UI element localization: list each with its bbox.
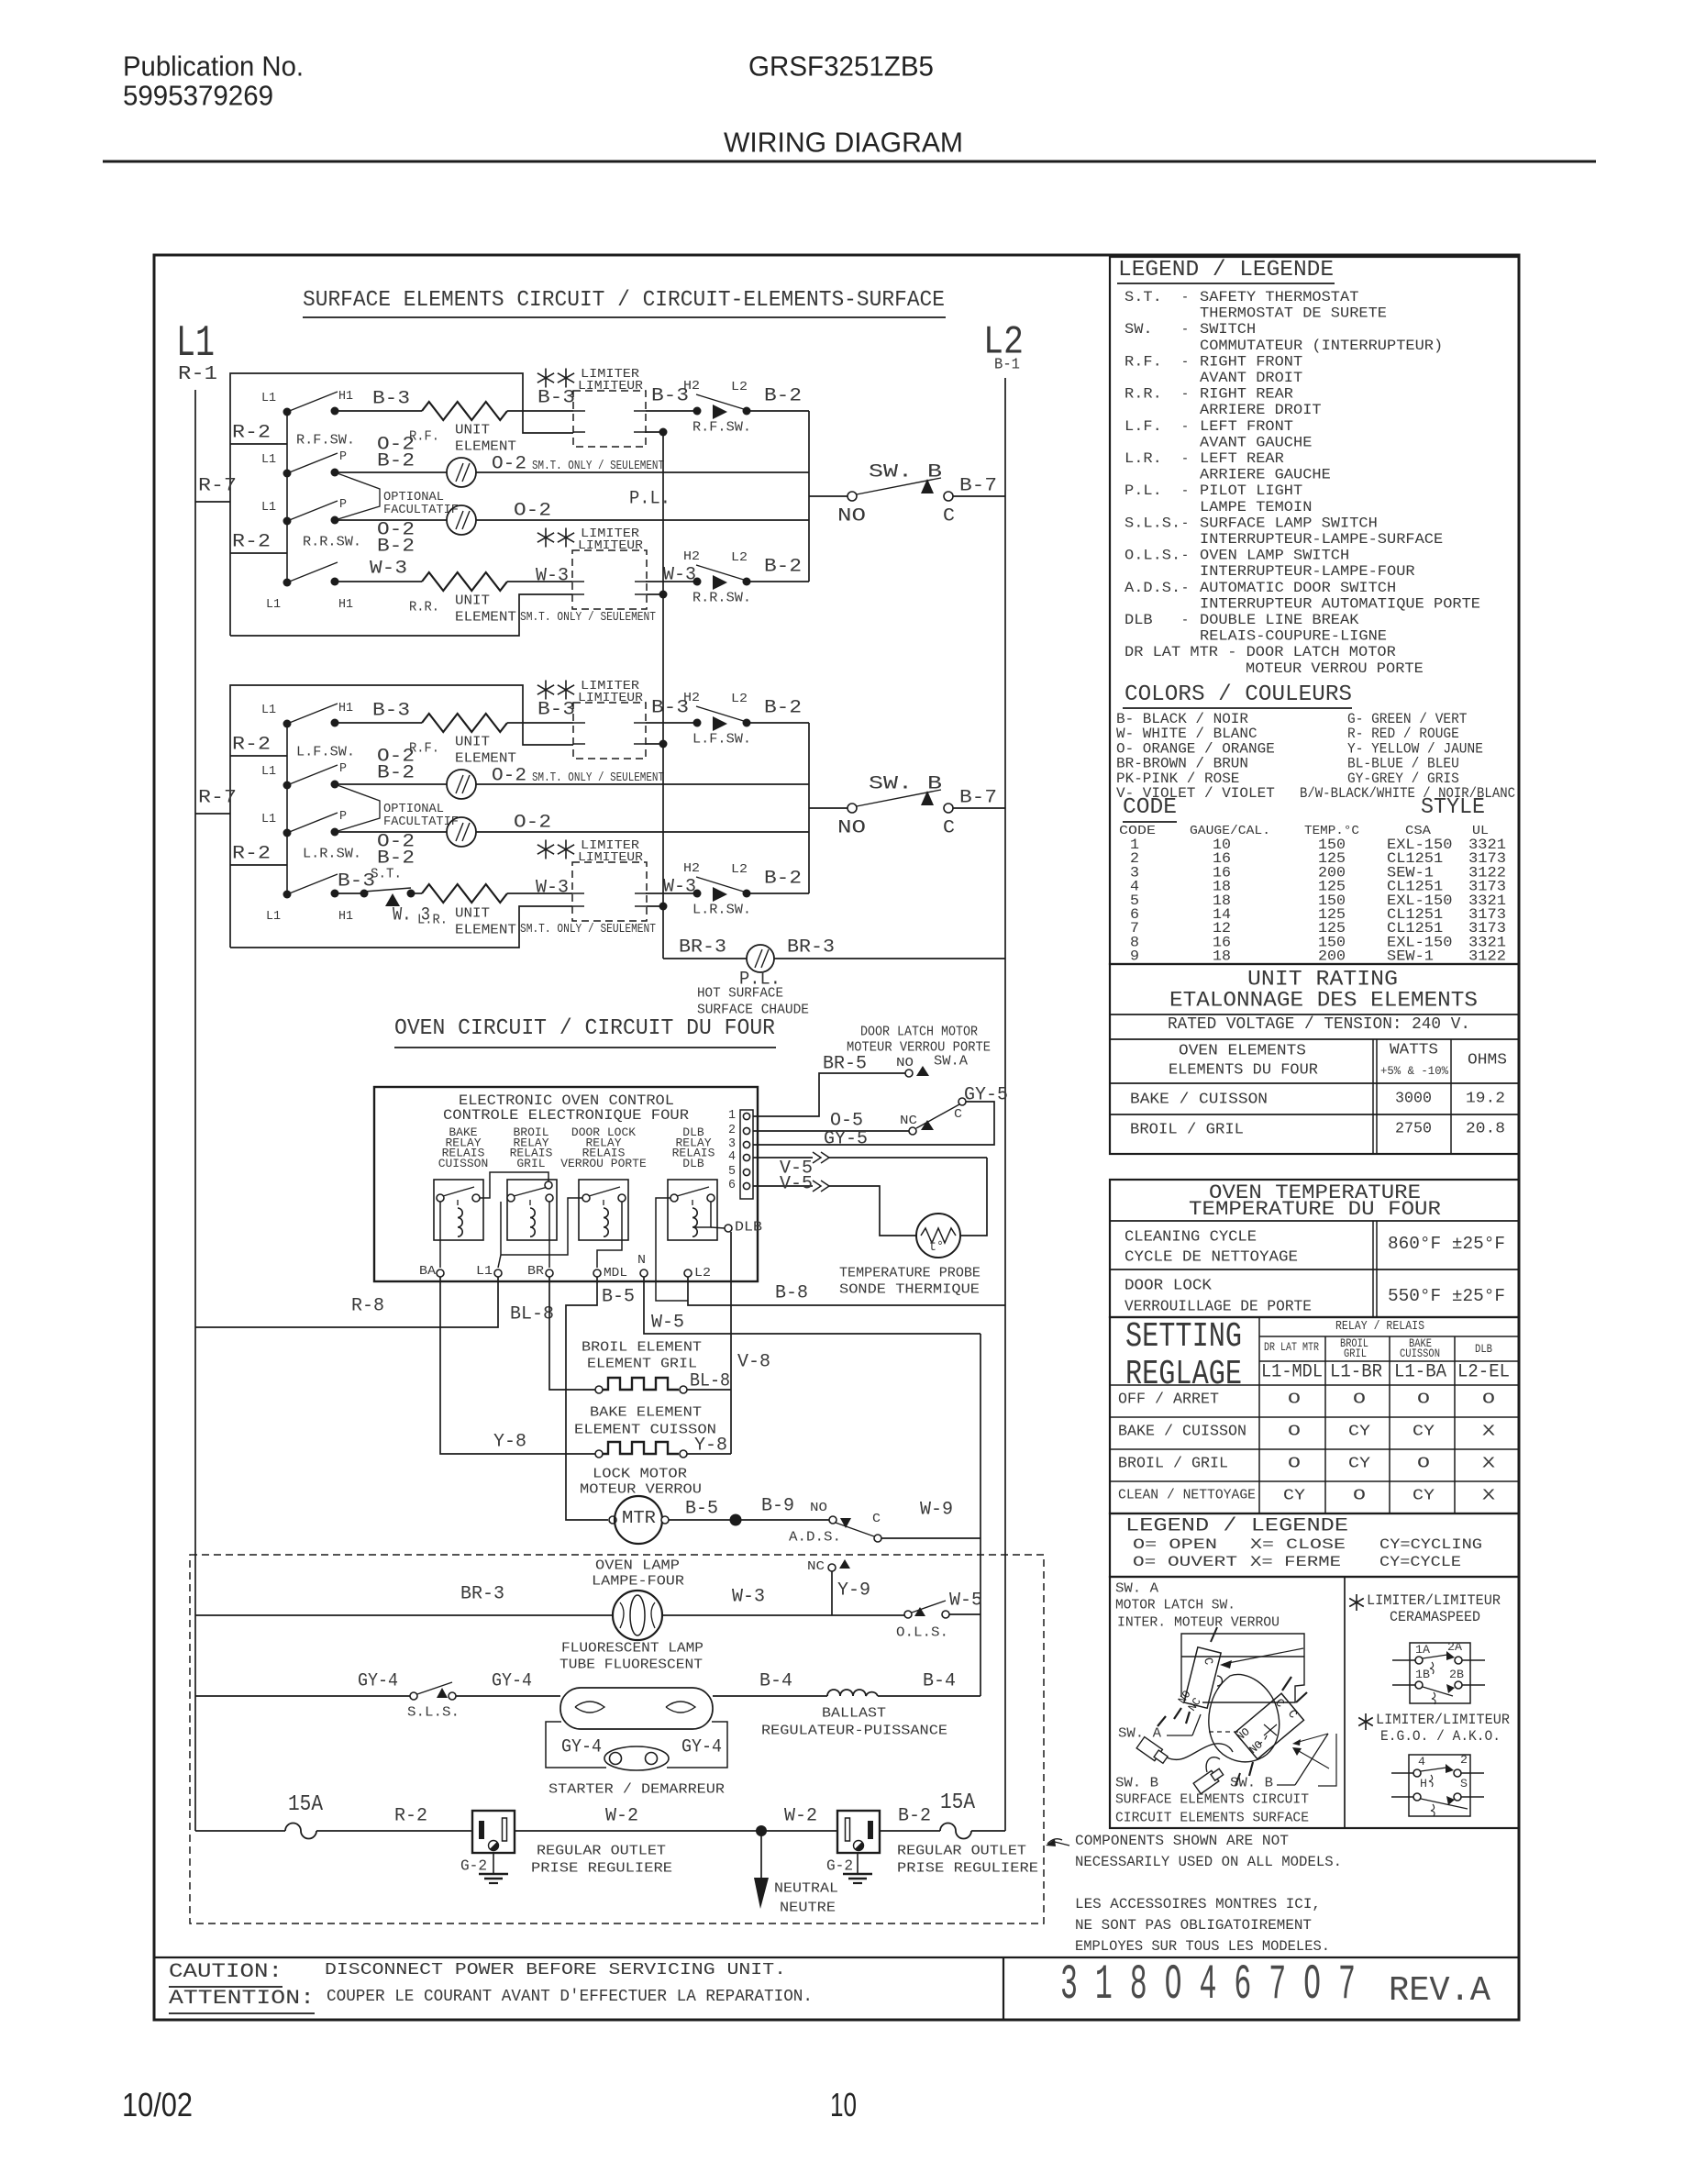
wire collector vertical group2 <box>808 723 810 893</box>
svg-text:L2-EL: L2-EL <box>1457 1362 1510 1383</box>
svg-text:W-3: W-3 <box>663 877 696 898</box>
svg-text:-: - <box>1181 386 1189 403</box>
relay K3 blade <box>589 1187 620 1196</box>
svg-text:CY=CYCLING: CY=CYCLING <box>1379 1536 1482 1553</box>
svg-text:SWITCH: SWITCH <box>1200 321 1256 338</box>
wire N pin to W rail (W-5) <box>644 1277 980 1334</box>
switch actuator triangle <box>713 716 727 731</box>
svg-text:CLEAN / NETTOYAGE: CLEAN / NETTOYAGE <box>1118 1487 1256 1502</box>
wire H1 to element <box>335 722 422 724</box>
wires 4 2 <box>1391 1772 1413 1774</box>
limiter dashed box (R.F.) <box>573 391 646 447</box>
svg-text:CYCLE DE NETTOYAGE: CYCLE DE NETTOYAGE <box>1125 1249 1298 1267</box>
wire bake right terminal stub <box>687 1453 731 1455</box>
asterisk limiter ceramaspeed <box>1356 1594 1357 1611</box>
wire SW.B to L2 rail (B-7) <box>953 495 1005 497</box>
wire H1 to element (R.R.) <box>335 581 422 582</box>
fuse F1 15A <box>285 1824 316 1839</box>
switch R.F.SW. H2 contact <box>693 407 702 416</box>
switch blade <box>287 453 338 473</box>
svg-text:COMMUTATEUR (INTERRUPTEUR): COMMUTATEUR (INTERRUPTEUR) <box>1200 338 1443 354</box>
wire return to limiter lower <box>230 594 572 636</box>
limiter dashed box (L.F.) <box>573 703 646 759</box>
switch R.F.SW. L2 contact <box>743 407 751 416</box>
pilot light P.L. (L.R.SW.) <box>447 817 476 847</box>
svg-text:Publication No.: Publication No. <box>123 50 304 82</box>
svg-text:B-5: B-5 <box>685 1499 718 1520</box>
rule <box>1110 1384 1519 1386</box>
svg-text:B-2: B-2 <box>377 763 415 784</box>
svg-text:R.F.SW.: R.F.SW. <box>296 432 355 448</box>
wire relay K2 right contact to BR pin <box>548 1202 550 1268</box>
wire from spade 1 <box>1167 1744 1233 1760</box>
switch B body (rotated) <box>1235 1693 1304 1759</box>
pointer arrows to switch B <box>1299 1734 1328 1742</box>
svg-text:SW. A: SW. A <box>1118 1725 1161 1741</box>
svg-text:GY-5: GY-5 <box>964 1085 1008 1106</box>
svg-text:CERAMASPEED: CERAMASPEED <box>1390 1609 1480 1625</box>
terminal S <box>1454 1793 1461 1801</box>
bake element right terminal <box>680 1450 687 1458</box>
wire ballast to W rail (B-4) <box>878 1695 980 1697</box>
svg-text:L1: L1 <box>176 319 215 369</box>
svg-text:H2: H2 <box>683 691 700 705</box>
svg-text:L2: L2 <box>694 1266 711 1280</box>
svg-text:L.F.SW.: L.F.SW. <box>296 744 355 759</box>
table vertical dividers <box>1258 1317 1260 1513</box>
svg-text:-: - <box>1181 289 1189 305</box>
wire limiter1 lower terminal to P.L. node <box>646 431 663 433</box>
svg-text:LEFT REAR: LEFT REAR <box>1200 450 1284 467</box>
wire P.L. vertical <box>662 432 664 959</box>
svg-text:NC: NC <box>807 1559 825 1574</box>
spade terminal 2 <box>1193 1767 1224 1794</box>
switch blade <box>696 877 747 892</box>
svg-text:DR LAT MTR: DR LAT MTR <box>1264 1340 1319 1354</box>
svg-text:O.L.S.: O.L.S. <box>1125 548 1180 564</box>
terminal 2B <box>1455 1681 1462 1689</box>
tube filament left <box>575 1702 604 1713</box>
wire limiter to L.R.SW. H2 <box>646 892 693 894</box>
limiter dashed box (R.R.) <box>572 550 647 609</box>
O.L.S. actuator triangle <box>914 1607 925 1616</box>
SW.A NC actuator triangle <box>921 1120 934 1130</box>
svg-text:P.L.: P.L. <box>1125 482 1162 499</box>
switch L.F.SW. pole 2 (pilot) - L1 contact <box>283 782 292 790</box>
wire A.D.S. C to W rail (W-9) <box>881 1537 980 1539</box>
svg-text:C: C <box>872 1512 881 1526</box>
svg-text:L1: L1 <box>261 391 276 405</box>
svg-text:GRSF3251ZB5: GRSF3251ZB5 <box>748 50 934 82</box>
svg-text:ARRIERE GAUCHE: ARRIERE GAUCHE <box>1200 467 1331 483</box>
svg-text:S.L.S.: S.L.S. <box>407 1704 460 1720</box>
wire junction to outlet 2 (W-2) <box>761 1830 837 1832</box>
resistor R.R. unit element <box>422 572 507 591</box>
caution divider <box>1003 1957 1004 2020</box>
svg-text:GRIL: GRIL <box>1344 1347 1367 1360</box>
svg-text:18: 18 <box>1213 948 1231 965</box>
svg-text:2750: 2750 <box>1395 1121 1432 1138</box>
wire pilot to L2 rail <box>774 958 1005 959</box>
svg-text:O: O <box>1288 1424 1301 1441</box>
svg-text:+5% & -10%: +5% & -10% <box>1380 1064 1448 1078</box>
svg-text:VERROU PORTE: VERROU PORTE <box>560 1157 647 1170</box>
switch S.L.S. right terminal <box>449 1692 456 1700</box>
svg-text:BAKE / CUISSON: BAKE / CUISSON <box>1118 1424 1246 1441</box>
wire collector vertical group1 <box>808 411 810 582</box>
svg-text:DLB: DLB <box>1125 612 1153 628</box>
switch SW.B C contact <box>944 804 953 813</box>
svg-text:LAMPE-FOUR: LAMPE-FOUR <box>592 1573 684 1589</box>
wire relay K3 right contact to MDL pin <box>597 1202 622 1268</box>
bake element left terminal <box>595 1450 603 1458</box>
switch L.F.SW. H1 contact <box>331 719 339 727</box>
svg-text:WIRING DIAGRAM: WIRING DIAGRAM <box>724 126 963 158</box>
switch blade <box>696 706 747 722</box>
connector >> upper <box>813 1152 821 1163</box>
switch L.R.SW. pole 2 (pilot) - L1 contact <box>283 829 292 837</box>
resistor L.R. unit element <box>422 884 507 903</box>
svg-text:NC: NC <box>900 1114 917 1128</box>
svg-text:MDL: MDL <box>604 1266 627 1280</box>
neutral arrow <box>754 1878 769 1909</box>
svg-text:TEMPERATURE PROBE: TEMPERATURE PROBE <box>839 1265 980 1280</box>
wire R-2 stub upper <box>230 443 287 445</box>
svg-text:SW. B: SW. B <box>1230 1775 1273 1790</box>
triangle <box>1446 1764 1454 1773</box>
wire L1 rail to oven lamp (BR-3) <box>195 1614 613 1616</box>
svg-text:COUPER LE COURANT AVANT D'EFFE: COUPER LE COURANT AVANT D'EFFECTUER LA R… <box>327 1988 813 2006</box>
svg-text:LEFT FRONT: LEFT FRONT <box>1200 418 1293 435</box>
svg-text:P: P <box>339 449 347 464</box>
relay K2 blade <box>514 1187 548 1196</box>
wire O.L.S. to W rail <box>949 1613 980 1615</box>
svg-text:LEGEND / LEGENDE: LEGEND / LEGENDE <box>1118 258 1334 283</box>
svg-text:GY-5: GY-5 <box>824 1129 868 1150</box>
svg-text:WATTS: WATTS <box>1390 1042 1438 1059</box>
outlet 2 (regular outlet) <box>837 1811 880 1853</box>
svg-text:L1: L1 <box>266 909 281 924</box>
svg-text:GY-4: GY-4 <box>492 1671 532 1692</box>
switch A body (rotated) <box>1184 1647 1221 1708</box>
svg-text:R.R.SW.: R.R.SW. <box>303 534 361 549</box>
svg-text:VERROUILLAGE DE PORTE: VERROUILLAGE DE PORTE <box>1125 1299 1312 1316</box>
wire S.T. to element <box>411 892 422 894</box>
svg-text:6: 6 <box>728 1178 736 1192</box>
junction dot <box>659 591 668 599</box>
switch P contact <box>331 828 339 837</box>
junction dot neutral <box>756 1825 767 1836</box>
wire outlet2 to fuse F2 (B-2) <box>880 1830 940 1832</box>
electronic oven control box U1 <box>374 1087 758 1281</box>
wire L1 pin to relay K2 left contact <box>498 1202 501 1268</box>
svg-text:DOOR LATCH MOTOR: DOOR LATCH MOTOR <box>860 1024 978 1039</box>
wire L1 node to relay K3 left contact <box>501 1198 582 1255</box>
svg-text:NO: NO <box>837 506 866 527</box>
svg-text:B-3: B-3 <box>372 389 410 410</box>
svg-text:LOCK MOTOR: LOCK MOTOR <box>593 1466 687 1481</box>
starter electrode left <box>610 1753 622 1765</box>
junction dot <box>659 428 668 437</box>
svg-text:P.L.: P.L. <box>629 489 670 510</box>
wire outlet1 to neutral junction (W-2) <box>515 1830 761 1832</box>
wire broil right to DLB vertical <box>687 1389 731 1391</box>
svg-text:OVEN LAMP SWITCH: OVEN LAMP SWITCH <box>1200 548 1349 564</box>
rule <box>1259 1360 1519 1362</box>
svg-text:860°F ±25°F: 860°F ±25°F <box>1388 1234 1505 1254</box>
pin 2 terminal <box>743 1127 749 1134</box>
svg-text:C: C <box>943 818 955 839</box>
svg-text:R-1: R-1 <box>178 364 217 385</box>
svg-text:B-3: B-3 <box>537 700 575 721</box>
svg-text:L.F.: L.F. <box>1125 418 1162 435</box>
svg-text:RIGHT FRONT: RIGHT FRONT <box>1200 353 1302 370</box>
svg-text:DOUBLE LINE BREAK: DOUBLE LINE BREAK <box>1200 612 1359 628</box>
relay K4 coil <box>692 1208 697 1236</box>
switch SW.A NC terminal <box>909 1127 916 1135</box>
svg-text:ELEMENT: ELEMENT <box>455 438 516 454</box>
svg-text:MOTEUR VERROU PORTE: MOTEUR VERROU PORTE <box>847 1039 991 1055</box>
svg-text:OVEN LAMP: OVEN LAMP <box>595 1558 680 1573</box>
svg-text:O: O <box>1482 1391 1495 1409</box>
svg-text:LAMPE TEMOIN: LAMPE TEMOIN <box>1200 499 1312 516</box>
wire L2 to collector <box>747 410 809 412</box>
relay K4 dlb relay box <box>668 1180 717 1240</box>
svg-text:CY: CY <box>1348 1424 1370 1441</box>
ground symbol G-2 (outlet 2) <box>857 1853 859 1874</box>
wires 1A 2A <box>1392 1659 1415 1661</box>
svg-text:BR-3: BR-3 <box>787 937 835 959</box>
rule <box>1110 1220 1519 1222</box>
rule <box>1110 1448 1519 1450</box>
asterisks ** <box>545 528 547 548</box>
svg-text:PILOT LIGHT: PILOT LIGHT <box>1200 482 1302 499</box>
svg-text:SURFACE CHAUDE: SURFACE CHAUDE <box>697 1002 809 1017</box>
switch blade <box>287 392 338 412</box>
svg-text:S.T.: S.T. <box>1125 289 1162 305</box>
svg-text:H2: H2 <box>683 861 700 876</box>
wire sw b stub <box>1235 1773 1240 1786</box>
spring squiggle <box>1431 1804 1435 1816</box>
svg-text:10/02: 10/02 <box>122 2086 193 2123</box>
terminal 2A <box>1455 1657 1462 1664</box>
svg-text:NO: NO <box>810 1501 827 1515</box>
column divider (double) <box>1372 1039 1374 1154</box>
wire L2 to collector <box>747 722 809 724</box>
svg-text:NE SONT PAS OBLIGATOIREMENT: NE SONT PAS OBLIGATOIREMENT <box>1075 1917 1312 1934</box>
legend box <box>1110 257 1519 964</box>
starter circuit wires <box>546 1722 606 1768</box>
wire SW.B to L2 rail (B-7) <box>953 807 1005 809</box>
relay K2 armature tick <box>529 1200 531 1205</box>
broil element left terminal <box>595 1386 603 1393</box>
A.D.S. blade <box>836 1523 874 1536</box>
svg-text:ELEMENT: ELEMENT <box>455 922 516 937</box>
spring squiggle <box>1432 1692 1435 1704</box>
triangle <box>1446 1651 1455 1660</box>
svg-text:BR-5: BR-5 <box>823 1054 867 1075</box>
svg-text:1: 1 <box>728 1108 736 1123</box>
svg-text:LIMITER/LIMITEUR: LIMITER/LIMITEUR <box>1376 1712 1510 1728</box>
wire S.L.S. to fluorescent tube (GY-4) <box>456 1695 560 1697</box>
wire return to limiter lower <box>230 906 572 948</box>
svg-text:REGLAGE: REGLAGE <box>1125 1355 1242 1394</box>
svg-text:BR-3: BR-3 <box>679 937 726 959</box>
svg-text:NO: NO <box>837 818 866 839</box>
wire pilot to collector <box>476 831 809 833</box>
EOC pin header connector <box>740 1110 753 1199</box>
pilot light P.L. hot surface <box>747 945 774 972</box>
svg-text:B-5: B-5 <box>602 1287 635 1308</box>
switch blade <box>287 813 338 833</box>
svg-text:NEUTRAL: NEUTRAL <box>774 1880 838 1896</box>
svg-text:SETTING: SETTING <box>1125 1317 1242 1357</box>
svg-text:H1: H1 <box>338 389 353 404</box>
pin 5 terminal <box>743 1169 749 1175</box>
rule <box>1110 1014 1519 1015</box>
svg-text:BR-3: BR-3 <box>460 1584 504 1605</box>
svg-text:15A: 15A <box>288 1792 324 1817</box>
svg-text:L1-BA: L1-BA <box>1394 1362 1446 1383</box>
svg-text:SW. B: SW. B <box>869 462 942 483</box>
svg-text:R-2: R-2 <box>232 423 271 444</box>
svg-text:CONTROLE ELECTRONIQUE FOUR: CONTROLE ELECTRONIQUE FOUR <box>443 1107 689 1124</box>
svg-text:OFF / ARRET: OFF / ARRET <box>1118 1391 1219 1409</box>
svg-text:3000: 3000 <box>1395 1091 1432 1108</box>
S.L.S. blade <box>417 1682 452 1694</box>
svg-text:X: X <box>1482 1424 1495 1441</box>
svg-text:INTER. MOTEUR VERROU: INTER. MOTEUR VERROU <box>1117 1614 1280 1630</box>
svg-text:SW. B: SW. B <box>869 774 942 795</box>
wire L2 pin to L2 rail (B-8) <box>688 1277 1005 1305</box>
svg-text:B-3: B-3 <box>338 871 375 892</box>
svg-text:SW. A: SW. A <box>1115 1580 1158 1596</box>
svg-text:SW.A: SW.A <box>934 1053 968 1069</box>
svg-text:H1: H1 <box>338 909 353 924</box>
limiter internal stubs <box>573 722 585 724</box>
svg-text:R.F.: R.F. <box>1125 353 1162 370</box>
svg-text:W-2: W-2 <box>605 1806 638 1827</box>
diagram border frame <box>154 255 1519 2020</box>
oven temperature box <box>1110 1180 1519 1317</box>
wire H1 to S.T. <box>335 892 364 894</box>
wire pin1 BR-5 to SW.A NO <box>753 1073 905 1116</box>
mechanical link OPTIONAL <box>335 472 380 520</box>
terminal 2 <box>1454 1769 1461 1777</box>
svg-text:S: S <box>1460 1777 1468 1790</box>
relay K2 coil <box>530 1208 535 1236</box>
svg-text:t°: t° <box>929 1238 944 1255</box>
svg-text:4: 4 <box>1418 1755 1425 1768</box>
svg-text:STARTER / DEMARREUR: STARTER / DEMARREUR <box>548 1781 725 1797</box>
svg-text:BAKE ELEMENT: BAKE ELEMENT <box>590 1404 702 1420</box>
svg-text:O-2: O-2 <box>492 454 526 475</box>
svg-text:OHMS: OHMS <box>1468 1052 1507 1070</box>
svg-text:L.R.: L.R. <box>417 912 448 927</box>
svg-text:R-2: R-2 <box>232 735 271 756</box>
switch L.F.SW. pole 1 (heater) - L1 contact <box>283 720 292 728</box>
wire P to pilot light <box>335 471 447 473</box>
svg-text:P: P <box>339 809 347 824</box>
blade 4-2 <box>1421 1768 1446 1771</box>
svg-text:BROIL ELEMENT: BROIL ELEMENT <box>582 1339 702 1355</box>
svg-text:B-2: B-2 <box>377 537 415 558</box>
switch O.L.S. left terminal <box>904 1611 912 1618</box>
wire L1 rail to fuse F1 <box>195 1830 285 1832</box>
limiter internal stubs <box>572 892 584 894</box>
svg-text:B-1: B-1 <box>994 357 1020 374</box>
svg-text:BL-8: BL-8 <box>690 1371 730 1392</box>
svg-text:CODE: CODE <box>1123 795 1177 820</box>
wire L2 to collector <box>747 581 809 582</box>
EOC pin BR <box>546 1269 553 1277</box>
svg-text:TUBE FLUORESCENT: TUBE FLUORESCENT <box>559 1657 703 1672</box>
svg-text:UNIT: UNIT <box>455 734 490 749</box>
svg-text:AVANT DROIT: AVANT DROIT <box>1200 370 1302 386</box>
temperature probe resistor zigzag <box>921 1228 956 1243</box>
svg-text:COLORS / COULEURS: COLORS / COULEURS <box>1125 682 1352 707</box>
switch B terminals <box>1282 1677 1291 1691</box>
relay K2 upper NO contact <box>545 1181 552 1189</box>
svg-text:O-2: O-2 <box>492 766 526 787</box>
svg-text:INTERRUPTEUR-LAMPE-SURFACE: INTERRUPTEUR-LAMPE-SURFACE <box>1200 531 1443 548</box>
rule <box>1259 1336 1519 1337</box>
svg-text:THERMOSTAT DE SURETE: THERMOSTAT DE SURETE <box>1200 305 1387 322</box>
pin 1 terminal <box>743 1113 749 1119</box>
switch A roller <box>1217 1676 1223 1686</box>
switch blade <box>287 501 338 521</box>
relay K4 blade <box>677 1187 709 1196</box>
wire P.L. to hot-surface pilot <box>663 958 747 959</box>
svg-text:BR: BR <box>527 1264 545 1279</box>
svg-text:1A: 1A <box>1415 1643 1430 1657</box>
svg-text:LIMITEUR: LIMITEUR <box>578 850 644 865</box>
switch R.F.SW. pole 1 (heater) - L1 contact <box>283 408 292 416</box>
switch R.R.SW. pole 1 - L1 contact <box>283 579 292 587</box>
illustration wire from frame <box>1181 1634 1304 1702</box>
asterisks ** <box>545 681 547 700</box>
temperature probe RT1 <box>916 1214 960 1258</box>
wires 1B 2B <box>1392 1684 1415 1686</box>
svg-text:SM.T. ONLY / SEULEMENT: SM.T. ONLY / SEULEMENT <box>532 459 664 473</box>
svg-text:200: 200 <box>1318 948 1346 965</box>
connector >> lower <box>813 1181 821 1192</box>
switch SW.B NO contact <box>848 804 857 813</box>
svg-text:DISCONNECT POWER BEFORE SERVIC: DISCONNECT POWER BEFORE SERVICING UNIT. <box>325 1961 786 1979</box>
svg-text:S.T.: S.T. <box>371 866 402 881</box>
ceramaspeed switch box <box>1410 1643 1470 1703</box>
svg-text:ELEMENT: ELEMENT <box>455 609 516 625</box>
svg-text:ELEMENTS DU FOUR: ELEMENTS DU FOUR <box>1169 1062 1318 1080</box>
setting-reglage table box <box>1110 1317 1519 1513</box>
EOC pin BA <box>437 1269 444 1277</box>
wire R-2 stub lower <box>230 552 287 554</box>
svg-text:INTERRUPTEUR AUTOMATIQUE PORTE: INTERRUPTEUR AUTOMATIQUE PORTE <box>1200 595 1480 612</box>
svg-text:L1-BR: L1-BR <box>1330 1362 1382 1383</box>
pointer arrow to dashed box <box>1047 1839 1062 1844</box>
svg-text:SURFACE ELEMENTS CIRCUIT: SURFACE ELEMENTS CIRCUIT <box>1115 1791 1309 1807</box>
svg-text:SURFACE ELEMENTS CIRCUIT / CIR: SURFACE ELEMENTS CIRCUIT / CIRCUIT-ELEME… <box>303 288 945 313</box>
svg-text:5: 5 <box>728 1164 736 1179</box>
wire H1 to element <box>335 410 422 412</box>
switch P contact <box>331 781 339 789</box>
svg-text:O: O <box>1288 1391 1301 1409</box>
wire limiter to L.F.SW. H2 <box>646 722 693 724</box>
junction dot <box>659 740 668 748</box>
svg-text:-: - <box>1181 418 1189 435</box>
switch R.R.SW. L2 contact <box>743 578 751 586</box>
broil element right terminal <box>680 1386 687 1393</box>
